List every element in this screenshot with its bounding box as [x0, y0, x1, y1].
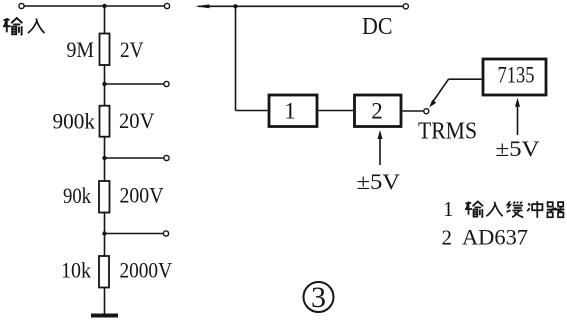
wire R3 to tap3	[104, 213, 106, 257]
svg-text:90k: 90k	[63, 183, 92, 208]
node junction DC line	[233, 4, 237, 8]
svg-text:2V: 2V	[120, 37, 144, 62]
label 输入 input	[3, 18, 44, 35]
svg-text:9M: 9M	[67, 37, 95, 62]
svg-text:±5V: ±5V	[357, 169, 401, 194]
svg-text:DC: DC	[362, 14, 393, 40]
svg-text:2: 2	[442, 226, 453, 250]
arrow supply into block2	[378, 130, 383, 165]
arrow supply into 7135	[515, 98, 520, 135]
svg-text:10k: 10k	[61, 258, 92, 283]
wire tap2 horizontal	[105, 157, 164, 159]
svg-text:1: 1	[443, 197, 454, 221]
wire vertical node to R1	[104, 6, 106, 34]
wire block1 to block2	[319, 110, 354, 112]
node tap 2V	[102, 82, 106, 86]
node junction top of divider	[102, 4, 106, 8]
svg-text:900k: 900k	[53, 109, 96, 134]
block U1 input buffer	[269, 95, 317, 127]
legend text 输入缓冲器	[465, 201, 564, 218]
svg-text:±5V: ±5V	[496, 136, 540, 161]
wire vertical down from DC line	[235, 6, 237, 110]
svg-text:7135: 7135	[498, 63, 535, 88]
svg-text:20V: 20V	[119, 108, 155, 133]
switch arm with arrowhead	[429, 79, 448, 107]
svg-text:AD637: AD637	[462, 225, 528, 250]
svg-text:1: 1	[284, 99, 296, 124]
svg-text:2000V: 2000V	[120, 258, 173, 283]
wire switch to 7135	[449, 78, 482, 80]
terminal circle input top-left	[19, 3, 24, 8]
wire top horizontal left section	[24, 5, 164, 7]
node tap 20V	[102, 156, 106, 160]
switch pole circle TRMS	[424, 109, 429, 114]
terminal circle DC	[403, 4, 408, 9]
terminal circle top tap	[164, 3, 169, 8]
wire block2 to switch pole	[403, 110, 424, 112]
resistor R1 9M	[100, 34, 110, 66]
wire into block 1	[236, 110, 268, 112]
svg-text:200V: 200V	[120, 183, 164, 208]
resistor R2 900k	[100, 106, 110, 137]
resistor R4 10k	[99, 256, 109, 288]
wire R4 to ground	[104, 288, 106, 315]
figure number circled 3	[304, 281, 334, 314]
ground	[91, 314, 118, 318]
svg-text:3: 3	[311, 281, 326, 314]
block U2 AD637	[355, 95, 402, 127]
node tap 200V	[102, 231, 106, 235]
wire R1 to tap1	[104, 65, 106, 106]
wire R2 to tap2	[104, 137, 106, 181]
resistor R3 90k	[99, 181, 110, 213]
terminal circle tap2	[164, 155, 169, 160]
terminal circle tap1	[164, 81, 169, 86]
wire DC horizontal	[236, 5, 404, 7]
terminal circle tap3	[163, 231, 168, 236]
wire tap3 horizontal	[105, 233, 164, 235]
block U3 7135	[483, 59, 546, 95]
svg-text:2: 2	[371, 99, 383, 124]
arrow left DC feed	[195, 4, 236, 8]
wire tap1 horizontal	[105, 83, 164, 85]
svg-text:TRMS: TRMS	[418, 118, 477, 145]
